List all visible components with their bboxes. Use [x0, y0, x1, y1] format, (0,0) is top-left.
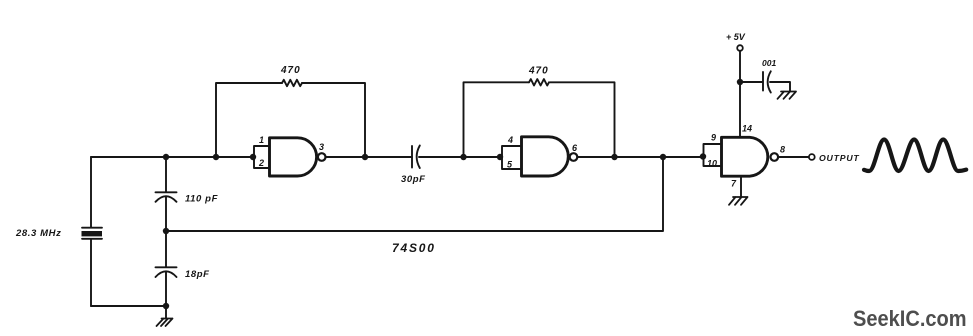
wire loop1 left+top: [216, 83, 282, 157]
terminal +5V: [737, 45, 743, 51]
capacitor C1 110pF: [156, 192, 177, 202]
pin 4: [507, 135, 513, 145]
resistor R1 470: [282, 80, 302, 86]
svg-text:9: 9: [711, 133, 716, 143]
pin 6: [572, 143, 578, 153]
node U1b input junction: [497, 154, 503, 160]
label 110 pF: [185, 194, 218, 205]
wire crystal branch top: [90, 157, 92, 227]
pin 5: [507, 160, 513, 170]
wire cap branch lower: [165, 272, 167, 306]
wire crystal branch bottom: [90, 239, 92, 306]
gate U1a 74S00 NAND: [270, 138, 317, 176]
crystal Y1: [82, 228, 103, 239]
bubble U1c: [771, 153, 779, 161]
node U1a input junction: [250, 154, 256, 160]
pin 7: [731, 179, 737, 189]
wire U1a input stubs: [254, 146, 269, 168]
ground bypass: [778, 92, 797, 99]
svg-text:7: 7: [731, 179, 737, 189]
waveform sine: [864, 140, 966, 172]
capacitor C2 18pF: [156, 267, 177, 277]
node loop1 right: [362, 154, 368, 160]
wire cap branch upper: [165, 157, 167, 192]
terminal OUTPUT: [809, 154, 815, 160]
bubble U1b: [570, 153, 578, 161]
wire loop2 left+top: [464, 82, 530, 157]
wire U1b output: [577, 156, 703, 158]
svg-text:18pF: 18pF: [185, 269, 210, 280]
wire ground stub: [165, 306, 167, 319]
wire bypass: [740, 81, 762, 83]
svg-text:6: 6: [572, 143, 578, 153]
svg-text:470: 470: [528, 66, 549, 77]
pin 10: [707, 159, 717, 169]
capacitor C3 30pF: [412, 146, 420, 169]
pin 9: [711, 133, 716, 143]
svg-text:4: 4: [507, 135, 513, 145]
wire pin7 ground stub: [740, 177, 742, 198]
wire U1b input stubs: [502, 146, 521, 169]
label 470 R2: [528, 66, 549, 77]
node main-C1 junction: [163, 154, 169, 160]
bubble U1a: [318, 153, 326, 161]
wire U1c input stubs: [704, 144, 722, 166]
watermark SeekIC.com: [853, 308, 967, 331]
svg-text:OUTPUT: OUTPUT: [819, 153, 860, 163]
svg-text:2: 2: [258, 158, 264, 168]
ground pin7: [729, 197, 748, 205]
label 18pF: [185, 269, 210, 280]
wire feedback long bottom: [166, 157, 663, 231]
node Vcc bypass junction: [737, 79, 743, 85]
node bottom junction: [163, 303, 169, 309]
node U1c input junction: [700, 153, 706, 159]
node feedback drop: [660, 154, 666, 160]
node loop1 left: [213, 154, 219, 160]
wire bottom: [91, 305, 166, 307]
pin 1: [259, 135, 264, 145]
wire main line left: [91, 156, 253, 158]
wire cap branch middle: [165, 197, 167, 268]
svg-text:28.3 MHz: 28.3 MHz: [15, 228, 61, 239]
label OUTPUT: [819, 153, 860, 163]
wire output: [778, 156, 809, 158]
label 470 R1: [280, 65, 301, 76]
svg-text:110 pF: 110 pF: [185, 194, 218, 205]
node C1-C2 junction: [163, 228, 169, 234]
wire Vcc vertical: [739, 51, 741, 137]
gate U1b 74S00 NAND: [522, 137, 569, 176]
svg-text:8: 8: [780, 145, 785, 155]
wire C3 to U1b: [419, 156, 500, 158]
label 28.3 MHz: [15, 228, 61, 239]
pin 8: [780, 145, 785, 155]
capacitor C4 001: [763, 71, 771, 92]
svg-text:001: 001: [762, 58, 776, 68]
svg-text:14: 14: [742, 124, 752, 134]
ground bottom: [157, 319, 173, 327]
wire U1a output: [326, 156, 413, 158]
svg-text:+ 5V: + 5V: [726, 32, 746, 42]
resistor R2 470: [529, 79, 549, 85]
pin 14: [742, 124, 752, 134]
svg-text:1: 1: [259, 135, 264, 145]
svg-text:5: 5: [507, 160, 513, 170]
pin 2: [258, 158, 264, 168]
wire loop1 top+right: [302, 83, 365, 157]
pin 3: [319, 142, 324, 152]
wire loop2 top+right: [550, 82, 615, 157]
node loop2 right: [611, 154, 617, 160]
node loop2 left: [460, 154, 466, 160]
svg-text:10: 10: [707, 159, 717, 169]
gate U1c 74S00 NAND: [722, 137, 768, 176]
label 001: [762, 58, 776, 68]
svg-text:30pF: 30pF: [401, 174, 426, 185]
label 74S00: [392, 241, 436, 255]
label 30pF: [401, 174, 426, 185]
label +5V: [726, 32, 746, 42]
svg-text:470: 470: [280, 65, 301, 76]
wire bypass to ground: [770, 82, 790, 92]
svg-text:74S00: 74S00: [392, 241, 436, 255]
svg-text:3: 3: [319, 142, 324, 152]
